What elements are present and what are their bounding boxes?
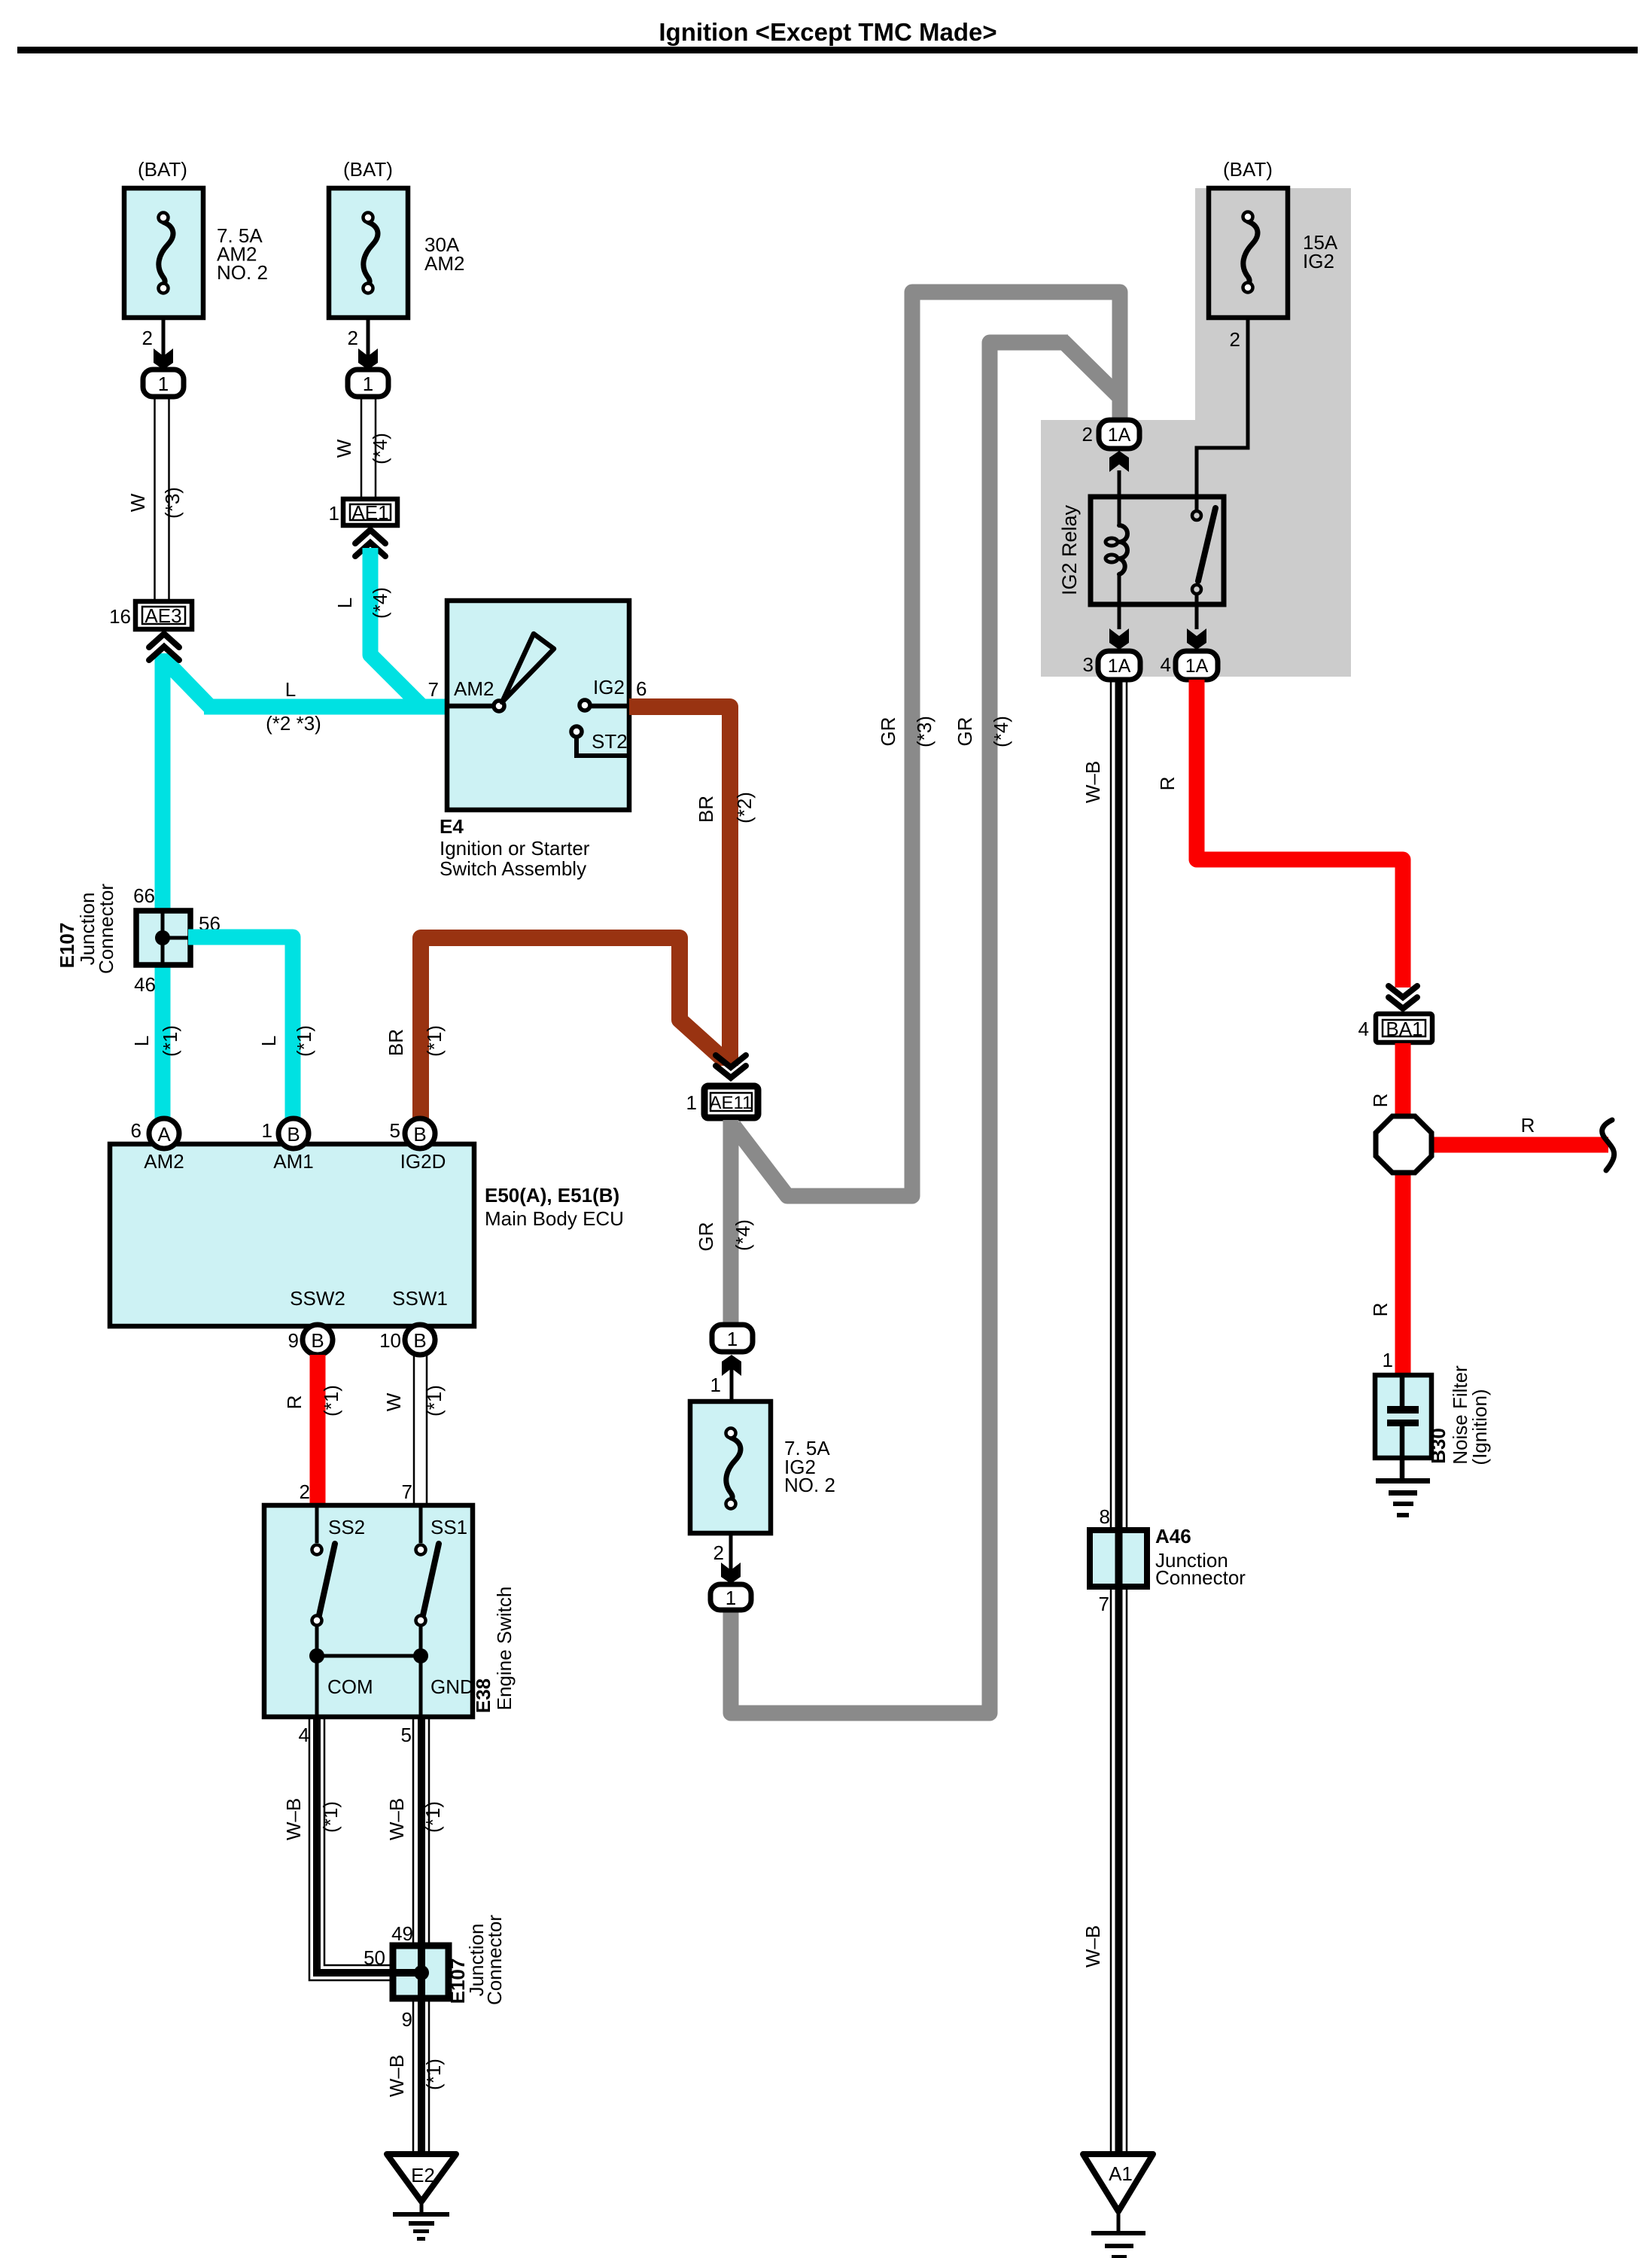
svg-text:E4: E4 <box>440 815 464 838</box>
gray shaded zone <box>1041 188 1351 677</box>
svg-text:(*4): (*4) <box>732 1219 754 1251</box>
wire R node down to B30 <box>1395 1168 1411 1377</box>
svg-text:5: 5 <box>390 1119 400 1142</box>
svg-text:Main Body ECU: Main Body ECU <box>485 1207 624 1230</box>
svg-text:Connector: Connector <box>483 1915 506 2005</box>
ground bars E2 <box>393 2212 449 2241</box>
svg-text:R: R <box>1369 1094 1392 1108</box>
svg-text:4: 4 <box>1161 653 1171 676</box>
wire W-B outline upper <box>1111 680 1127 1530</box>
svg-text:IG2: IG2 <box>593 676 625 698</box>
wire L diagonal from AE3 riser <box>163 658 211 708</box>
wire L horizontal to AM2 pin of E4 <box>204 699 447 715</box>
svg-text:1: 1 <box>1383 1349 1393 1371</box>
svg-text:8: 8 <box>1100 1505 1110 1528</box>
svg-text:(*1): (*1) <box>422 2059 445 2090</box>
svg-text:GR: GR <box>877 717 899 747</box>
junction dot E107 lower <box>414 1965 429 1980</box>
filter internal lead lower <box>1400 1426 1405 1479</box>
svg-text:16: 16 <box>109 605 131 628</box>
chevron below AE3 <box>149 634 179 660</box>
svg-text:ST2: ST2 <box>592 730 628 753</box>
internal stub horizontal <box>394 1969 421 1977</box>
svg-text:BA1: BA1 <box>1386 1018 1422 1040</box>
svg-text:1: 1 <box>262 1119 272 1142</box>
junction dot GND <box>413 1648 428 1663</box>
internal link COM-GND <box>317 1654 421 1658</box>
svg-text:SSW1: SSW1 <box>392 1287 448 1310</box>
wire BR (*1) from ECU IG2D to AE11 <box>421 938 726 1121</box>
svg-text:(*3): (*3) <box>161 487 184 519</box>
connector circle 1 (above fuse) <box>712 1325 753 1352</box>
wire W (*1) SSW1 to SS1 <box>414 1355 427 1505</box>
arrow down into circle <box>721 1563 741 1584</box>
svg-text:(BAT): (BAT) <box>138 158 187 181</box>
svg-text:(*2): (*2) <box>733 792 756 823</box>
svg-text:A: A <box>157 1123 171 1146</box>
SS2 lever <box>319 1544 335 1615</box>
arrow up into circle <box>722 1355 741 1376</box>
arrow into connector 1 <box>154 348 173 370</box>
E107 junction dot <box>155 930 170 945</box>
svg-text:(*4): (*4) <box>369 587 391 619</box>
svg-text:5: 5 <box>401 1724 412 1746</box>
svg-text:E2: E2 <box>411 2164 435 2186</box>
switch assembly E4 box <box>447 601 629 810</box>
svg-text:SS2: SS2 <box>328 1516 365 1538</box>
svg-text:A1: A1 <box>1109 2162 1133 2185</box>
COM lead <box>315 1626 319 1717</box>
svg-text:Engine Switch: Engine Switch <box>493 1587 516 1711</box>
ST2 contact circle <box>571 726 582 737</box>
fuse F2 30A AM2 <box>329 188 408 318</box>
svg-text:L: L <box>257 1036 280 1046</box>
svg-text:(Ignition): (Ignition) <box>1468 1389 1491 1465</box>
svg-text:E50(A), E51(B): E50(A), E51(B) <box>485 1184 619 1207</box>
wire L (*1) vertical from AE3 to ECU pin A <box>155 653 171 1118</box>
svg-text:1: 1 <box>158 373 169 395</box>
svg-text:6: 6 <box>131 1119 141 1142</box>
IG2 contact lead <box>590 704 629 709</box>
svg-text:R: R <box>1521 1114 1535 1137</box>
wire GR (*4) upper loop to relay pin 2 <box>731 341 1118 1713</box>
ST2 lead <box>577 737 629 756</box>
svg-text:7. 5AAM2NO. 2: 7. 5AAM2NO. 2 <box>217 224 268 284</box>
svg-text:GR: GR <box>954 717 976 747</box>
ground triangle A1 <box>1083 2154 1153 2211</box>
wire break squiggle <box>1602 1120 1614 1170</box>
fuse F3 7.5A IG2 NO.2 <box>690 1401 771 1533</box>
Main Body ECU box E50/E51 <box>110 1144 474 1326</box>
wire W (*4) white double line <box>361 397 376 498</box>
key lever wedge <box>502 634 554 702</box>
svg-text:50: 50 <box>364 1946 385 1969</box>
coil lead upper <box>1118 470 1121 525</box>
wire GR (*3) AE11 to relay pin 2 <box>734 292 1120 1196</box>
svg-text:(*4): (*4) <box>369 433 391 464</box>
svg-text:W: W <box>333 439 355 458</box>
svg-text:B: B <box>413 1123 426 1146</box>
svg-text:15AIG2: 15AIG2 <box>1303 231 1338 272</box>
svg-text:46: 46 <box>134 973 156 996</box>
relay switch lead lower <box>1195 594 1199 629</box>
internal wire vertical through box <box>418 1943 425 2001</box>
IG2 contact circle <box>580 700 590 711</box>
pin B circle (AM1) <box>278 1118 309 1149</box>
svg-text:Connector: Connector <box>95 884 117 974</box>
chevron above AE11 <box>716 1055 746 1078</box>
connector AE11 <box>704 1086 758 1118</box>
connector circle 1 (F1) <box>143 370 184 397</box>
svg-text:49: 49 <box>391 1922 413 1945</box>
connector 1A pin 4 <box>1176 651 1218 680</box>
connector 1A pin 2 <box>1099 420 1139 449</box>
svg-text:SS1: SS1 <box>430 1516 467 1538</box>
svg-text:30AAM2: 30AAM2 <box>424 233 464 275</box>
svg-text:E38: E38 <box>472 1678 494 1713</box>
svg-text:B: B <box>311 1329 324 1352</box>
svg-text:(*1): (*1) <box>319 1801 342 1833</box>
connector 1A pin 3 <box>1098 651 1140 680</box>
SS1 upper contact <box>416 1545 426 1555</box>
svg-text:AM2: AM2 <box>454 677 494 700</box>
svg-text:10: 10 <box>379 1329 401 1352</box>
svg-text:AE1: AE1 <box>351 501 388 524</box>
pin stub wire F1 <box>162 318 166 357</box>
svg-text:7. 5AIG2NO. 2: 7. 5AIG2NO. 2 <box>784 1437 835 1496</box>
svg-text:1: 1 <box>727 1328 738 1350</box>
connector circle 1 (F2) <box>348 370 388 397</box>
svg-text:B: B <box>413 1329 426 1352</box>
svg-text:IG2 Relay: IG2 Relay <box>1058 504 1081 595</box>
junction dot COM <box>309 1648 324 1663</box>
ground triangle E2 <box>387 2154 456 2202</box>
AM2 contact lead <box>447 704 495 709</box>
wire R relay to BA1 <box>1197 680 1403 987</box>
SS1 lever <box>423 1544 439 1615</box>
svg-text:B30: B30 <box>1427 1428 1450 1464</box>
svg-text:Ignition or Starter: Ignition or Starter <box>440 837 590 860</box>
coil lead lower <box>1118 574 1121 629</box>
svg-text:B: B <box>287 1123 300 1146</box>
svg-text:1: 1 <box>329 502 339 525</box>
svg-text:Ignition <Except TMC Made>: Ignition <Except TMC Made> <box>659 18 996 46</box>
noise filter B30 box <box>1375 1375 1431 1458</box>
svg-text:AM1: AM1 <box>273 1150 313 1173</box>
svg-text:9: 9 <box>288 1329 299 1352</box>
svg-text:(*1): (*1) <box>423 1025 446 1057</box>
connector AE3 <box>135 601 192 629</box>
fuse F4 15A IG2 <box>1209 188 1288 318</box>
relay switch lower contact <box>1192 585 1201 594</box>
pin A circle (AM2) <box>149 1118 179 1149</box>
chevron below AE1 <box>355 530 385 556</box>
junction connector E107 box <box>136 911 190 965</box>
wire W-B (*1) from COM pin 4 <box>309 1718 421 1980</box>
SS1 lower contact <box>416 1616 426 1626</box>
node octagon <box>1376 1116 1431 1173</box>
svg-text:7: 7 <box>402 1480 412 1503</box>
svg-text:9: 9 <box>402 2008 412 2031</box>
svg-text:AM2: AM2 <box>144 1150 184 1173</box>
svg-text:1A: 1A <box>1108 425 1131 446</box>
svg-text:1: 1 <box>686 1091 697 1114</box>
svg-text:1: 1 <box>710 1374 721 1396</box>
svg-text:7: 7 <box>1099 1593 1109 1615</box>
svg-text:W: W <box>126 493 149 512</box>
connector BA1 <box>1376 1014 1432 1042</box>
svg-text:(*1): (*1) <box>293 1025 315 1057</box>
svg-text:L: L <box>285 678 296 701</box>
svg-text:IG2D: IG2D <box>400 1150 446 1173</box>
ground bars A1 <box>1091 2231 1145 2258</box>
svg-text:(BAT): (BAT) <box>343 158 393 181</box>
relay switch lever <box>1198 508 1215 581</box>
arrow up into pin 2 <box>1109 451 1129 472</box>
svg-text:W–B: W–B <box>1082 1925 1104 1967</box>
wire W-B stripe through <box>1115 680 1123 2152</box>
svg-text:2: 2 <box>300 1480 310 1503</box>
svg-text:SSW2: SSW2 <box>290 1287 345 1310</box>
svg-text:7: 7 <box>428 678 439 701</box>
wire L (*4) from AE1 down <box>370 548 422 707</box>
engine switch E38 box <box>264 1505 473 1717</box>
svg-text:2: 2 <box>348 327 358 349</box>
svg-text:L: L <box>333 598 356 608</box>
svg-text:2: 2 <box>142 327 153 349</box>
svg-text:1A: 1A <box>1108 656 1131 677</box>
svg-text:BR: BR <box>695 796 717 823</box>
svg-text:66: 66 <box>133 884 155 907</box>
svg-text:4: 4 <box>1358 1018 1369 1040</box>
wire W (*3) white double line <box>155 397 169 601</box>
arrow into connector 1 <box>358 348 378 370</box>
svg-text:A46: A46 <box>1155 1525 1191 1547</box>
connector AE1 <box>343 499 397 525</box>
junction connector A46 box <box>1090 1530 1147 1587</box>
capacitor plates <box>1387 1406 1419 1426</box>
svg-text:1: 1 <box>363 373 373 395</box>
svg-text:(BAT): (BAT) <box>1223 158 1273 181</box>
relay switch upper contact <box>1192 511 1201 520</box>
svg-text:W–B: W–B <box>385 2055 408 2097</box>
SS2 upper contact <box>312 1545 322 1555</box>
wire W-B (*1) from GND pin 5 <box>413 1718 429 1946</box>
svg-text:(*4): (*4) <box>990 716 1012 747</box>
wire R BA1 to octagon <box>1395 1043 1411 1121</box>
svg-text:L: L <box>130 1036 153 1046</box>
svg-text:(*2 *3): (*2 *3) <box>266 712 321 735</box>
wire R (*1) SSW2 to SS2 <box>310 1355 326 1505</box>
arrow down into pin 4 <box>1187 628 1206 650</box>
svg-text:GR: GR <box>695 1222 717 1252</box>
pin stub wire F2 <box>367 318 370 357</box>
pin stub below fuse <box>729 1533 733 1572</box>
connector circle 1 (below fuse) <box>710 1584 751 1610</box>
pin B circle (IG2D) <box>405 1118 435 1149</box>
relay switch lead upper <box>1195 497 1199 510</box>
svg-text:BR: BR <box>385 1029 407 1056</box>
svg-text:W–B: W–B <box>282 1798 305 1840</box>
IG2 relay box <box>1091 497 1224 604</box>
svg-text:Connector: Connector <box>1155 1566 1246 1589</box>
E107 internal bus horizontal <box>163 936 190 940</box>
svg-text:2: 2 <box>1082 423 1093 446</box>
pin stub <box>730 1368 734 1401</box>
svg-text:6: 6 <box>636 677 647 700</box>
svg-text:2: 2 <box>713 1541 724 1564</box>
svg-text:3: 3 <box>1083 653 1094 676</box>
svg-text:E107: E107 <box>56 923 78 969</box>
E107 internal bus vertical <box>161 911 165 965</box>
svg-text:1: 1 <box>726 1587 736 1609</box>
pin B circle (SSW1) <box>405 1325 435 1355</box>
svg-text:Switch Assembly: Switch Assembly <box>440 857 586 880</box>
pin B circle (SSW2) <box>303 1325 333 1355</box>
SS1 lead <box>419 1505 423 1543</box>
wire L (*1) branch 56 to AM1 <box>188 937 293 1118</box>
wire W-B outline lower <box>1111 1587 1127 2152</box>
svg-text:AE11: AE11 <box>710 1093 753 1113</box>
wire R node to right break <box>1428 1137 1608 1153</box>
fuse F1 7.5A AM2 NO.2 <box>124 188 203 318</box>
svg-text:R: R <box>1156 777 1179 791</box>
ground stem E2 <box>420 2202 424 2214</box>
filter internal lead upper <box>1400 1377 1405 1407</box>
title rule <box>17 47 1638 53</box>
svg-text:(*3): (*3) <box>913 716 936 747</box>
junction connector E107 lower box <box>393 1946 449 1998</box>
svg-text:R: R <box>1369 1303 1392 1317</box>
SS2 lower contact <box>312 1616 322 1626</box>
svg-text:1A: 1A <box>1185 656 1209 677</box>
svg-text:4: 4 <box>299 1724 309 1746</box>
wire GR (*4) from AE11 down to circle <box>723 1120 739 1326</box>
chassis ground B30 <box>1376 1478 1430 1517</box>
chevron above BA1 <box>1389 986 1417 1009</box>
svg-text:(*1): (*1) <box>159 1025 181 1057</box>
svg-text:R: R <box>283 1395 306 1410</box>
svg-text:2: 2 <box>1230 328 1240 351</box>
svg-text:(*1): (*1) <box>421 1801 444 1833</box>
svg-text:GND: GND <box>430 1675 474 1698</box>
lead from fuse to relay contact <box>1197 318 1248 498</box>
SS2 lead <box>315 1505 319 1543</box>
ground stem A1 <box>1117 2211 1121 2233</box>
svg-text:(*1): (*1) <box>423 1385 446 1417</box>
svg-text:W: W <box>382 1392 405 1411</box>
relay coil <box>1119 525 1127 574</box>
AM2 contact circle <box>494 701 504 711</box>
arrow down into pin 3 <box>1109 628 1129 650</box>
GND lead <box>419 1626 423 1717</box>
wire W-B (*1) to E2 <box>413 1998 429 2152</box>
svg-text:COM: COM <box>327 1675 373 1698</box>
svg-text:AE3: AE3 <box>145 604 181 627</box>
svg-text:W–B: W–B <box>385 1798 408 1840</box>
svg-text:W–B: W–B <box>1082 761 1104 803</box>
svg-text:(*1): (*1) <box>320 1385 342 1417</box>
wire BR (*2) from E4 IG2 to AE11 <box>629 707 730 1066</box>
